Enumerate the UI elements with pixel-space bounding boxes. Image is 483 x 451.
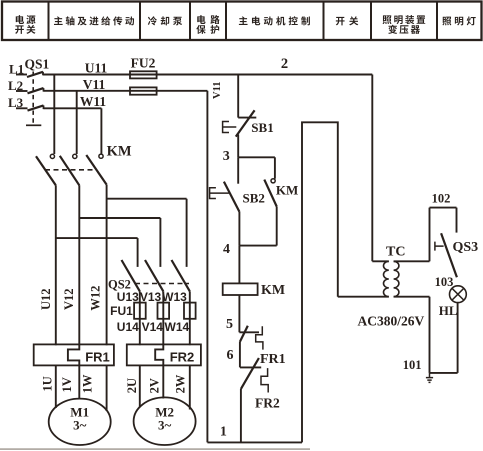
switch QS1 blade L2 bus tick (43, 88, 45, 92)
contact FR2 release symbol (261, 368, 268, 392)
svg-text:V12: V12 (62, 288, 76, 310)
wire node 4 join (239, 245, 276, 247)
wire branch C horizontal (107, 198, 187, 200)
switch QS2 linkage dashed (135, 283, 189, 285)
svg-text:FU1: FU1 (110, 304, 133, 318)
wire KM aux branch drop (274, 157, 276, 178)
wire TC primary bottom (338, 296, 389, 298)
svg-text:FR1: FR1 (85, 350, 110, 365)
svg-text:AC380/26V: AC380/26V (358, 314, 425, 329)
svg-text:V11: V11 (83, 77, 106, 92)
header cell 电路保护 (196, 15, 219, 34)
fuse FU2 element V11 (130, 87, 157, 94)
thermal relay FR1 heater detour (68, 344, 79, 365)
switch QS1 linkage end bar (26, 124, 41, 126)
lamp HL cross (452, 288, 464, 300)
svg-text:FR2: FR2 (255, 395, 280, 410)
svg-text:101: 101 (403, 358, 422, 372)
wire node 101 bar (430, 372, 458, 374)
wire QS3 fixed stub (456, 208, 458, 233)
ground symbol (426, 373, 433, 383)
wire branch A horizontal (56, 237, 138, 239)
svg-text:V13: V13 (140, 290, 162, 304)
wire M2 lead 2U (139, 365, 141, 407)
svg-text:1U: 1U (41, 376, 55, 391)
svg-text:FR2: FR2 (170, 350, 195, 365)
contact KM aux terminal (271, 179, 275, 183)
svg-text:2: 2 (281, 56, 288, 72)
KM main contact 1 blade (36, 156, 56, 185)
switch QS1 pole L1 blade (27, 72, 43, 77)
svg-text:1: 1 (220, 424, 227, 439)
svg-text:W11: W11 (80, 94, 107, 109)
svg-text:HL: HL (439, 303, 458, 318)
wire branch A vertical (137, 238, 139, 267)
svg-text:KM: KM (276, 183, 298, 198)
svg-text:TC: TC (386, 245, 405, 260)
contact KM aux blade (264, 180, 276, 207)
KM main contact 1 terminal (50, 154, 54, 158)
header cell 冷却泵 (148, 16, 182, 25)
svg-text:V14: V14 (142, 320, 164, 334)
svg-text:SB1: SB1 (251, 120, 273, 135)
wire branch B vertical (159, 218, 161, 267)
wire V11 bus (44, 90, 208, 92)
pushbutton SB2 actuator (210, 188, 229, 199)
wire node4 to coil (238, 246, 240, 284)
fuse FU1 element 3 (184, 303, 196, 319)
wire U11 bus / line 2 (43, 74, 372, 76)
wire M1 lead 1V (78, 365, 80, 399)
switch QS1 linkage dashed (32, 72, 34, 125)
wire M1 lead 1W (106, 365, 108, 411)
wire lamp to node 101 (457, 303, 459, 373)
svg-text:W12: W12 (89, 286, 103, 311)
wire L2 stub (16, 90, 28, 92)
header cell 电源开关 (15, 15, 35, 34)
svg-text:U13: U13 (117, 290, 139, 304)
wire TC primary top (372, 260, 389, 262)
svg-text:102: 102 (432, 191, 451, 205)
svg-text:U12: U12 (39, 288, 53, 310)
svg-text:SB2: SB2 (243, 190, 265, 205)
KM main contact 3 blade (86, 155, 106, 185)
wire W11 bus (44, 107, 102, 109)
KM main contact 2 terminal (73, 154, 77, 158)
wire FR2 to node 1 (240, 389, 242, 443)
wire TC secondary bottom (394, 296, 430, 298)
transformer TC primary winding (383, 261, 388, 296)
wire SB1 to node 3 (237, 135, 239, 158)
thermal relay FR1 box (34, 344, 114, 365)
header cell 主电动机控制 (239, 16, 310, 25)
wire V11 dropper (76, 91, 78, 154)
svg-text:2V: 2V (147, 378, 161, 393)
motor M1 body (49, 399, 111, 445)
header cell 主轴及进给传动 (54, 16, 134, 25)
wire node 3 branch (238, 156, 275, 158)
svg-text:3~: 3~ (73, 418, 87, 433)
switch QS3 actuator (435, 242, 444, 251)
pushbutton SB2 blade (224, 182, 240, 212)
fuse FU1 element 1 (134, 303, 146, 319)
svg-text:W14: W14 (165, 320, 190, 334)
wire secondary to node 102 (429, 208, 431, 262)
switch QS3 blade (441, 233, 457, 277)
thermal relay FR2 box (127, 344, 201, 365)
svg-text:1V: 1V (60, 377, 74, 392)
wire SB2 bottom (238, 212, 240, 246)
header column dividers (49, 2, 438, 41)
svg-text:5: 5 (226, 317, 233, 332)
contact FR2 blade (241, 358, 259, 389)
svg-text:1W: 1W (81, 374, 95, 393)
wire phase C column (106, 185, 108, 346)
header cell 开关 (336, 16, 358, 25)
wire fuse column 3 (189, 291, 191, 345)
wire branch B horizontal (79, 217, 160, 219)
pushbutton SB1 fixed bar (238, 117, 256, 119)
wire TC return loop (302, 122, 338, 442)
switch QS1 blade L1 bus tick (42, 72, 44, 76)
wire M2 lead 2W (189, 365, 191, 409)
svg-text:QS1: QS1 (25, 57, 50, 72)
header table frame (2, 2, 482, 41)
contact FR2 fixed bar (240, 366, 261, 368)
wire phase A column (55, 185, 57, 345)
svg-text:U11: U11 (85, 60, 108, 75)
wire SB2 top (237, 157, 239, 183)
pushbutton SB1 actuator (223, 122, 237, 133)
svg-text:103: 103 (435, 275, 454, 289)
contact FR1 release symbol (256, 326, 263, 349)
svg-text:6: 6 (227, 348, 234, 363)
contactor coil KM (223, 283, 258, 295)
switch QS1 blade L3 bus tick (43, 105, 45, 109)
wire branch C vertical (186, 199, 188, 267)
wire node 1 bottom line (207, 441, 302, 443)
pushbutton SB1 blade (236, 110, 255, 136)
svg-text:2W: 2W (174, 374, 188, 393)
wire U11 dropper (53, 75, 55, 155)
lamp HL body (450, 286, 467, 303)
switch QS1 pole L3 blade (28, 105, 44, 110)
svg-text:3~: 3~ (158, 418, 172, 433)
motor M2 body (134, 397, 196, 445)
scan edge artifact (0, 448, 310, 450)
KM main contact 2 blade (60, 156, 80, 186)
transformer TC secondary winding (394, 261, 399, 296)
svg-text:KM: KM (107, 144, 132, 160)
contact FR1 blade (240, 326, 248, 342)
switch QS2 blade 3 (172, 260, 190, 291)
switch QS1 pole L2 blade (28, 88, 44, 93)
wire fuse column 2 (162, 291, 164, 345)
wire L3 stub (16, 107, 28, 109)
svg-text:FR1: FR1 (260, 352, 286, 367)
KM main linkage dashed (45, 169, 95, 171)
header cell 照明灯 (442, 16, 475, 25)
wire L1 stub (16, 74, 27, 76)
wire TC secondary top (394, 260, 430, 262)
fuse FU1 element 2 (158, 303, 170, 319)
svg-text:V11: V11 (212, 81, 223, 99)
svg-text:W13: W13 (162, 290, 187, 304)
KM main contact 3 terminal (99, 154, 103, 158)
wire fuse column 1 (139, 291, 141, 345)
wire KM aux bottom (276, 207, 278, 246)
svg-text:QS3: QS3 (453, 240, 479, 255)
header cell 照明装置变压器 (383, 15, 426, 34)
svg-text:2U: 2U (125, 378, 139, 393)
fuse FU2 element U11 (130, 71, 157, 78)
wire V11 control line (206, 91, 208, 443)
node 102 link bar (430, 207, 457, 209)
wire M1 lead 1U (55, 365, 57, 408)
svg-text:KM: KM (261, 283, 285, 298)
wire phase B column (78, 185, 80, 345)
wire coil to FR1 contact (238, 295, 240, 332)
wire M2 lead 2V (162, 365, 164, 398)
wire SB1 branch from line 2 (237, 75, 239, 118)
svg-text:4: 4 (223, 242, 230, 257)
contact FR1 fixed bar (239, 331, 259, 333)
thermal relay FR2 heater detour (155, 344, 163, 365)
wire W11 dropper (100, 108, 102, 154)
switch QS2 blade 2 (145, 260, 163, 291)
svg-text:FU2: FU2 (131, 56, 156, 71)
svg-text:3: 3 (223, 149, 230, 164)
wire FR1 to FR2 contact (239, 342, 241, 368)
switch QS2 blade 1 (122, 260, 140, 291)
wire line 2 drop to TC (371, 75, 373, 262)
svg-text:U14: U14 (117, 320, 139, 334)
wire secondary bottom drop (429, 297, 431, 373)
